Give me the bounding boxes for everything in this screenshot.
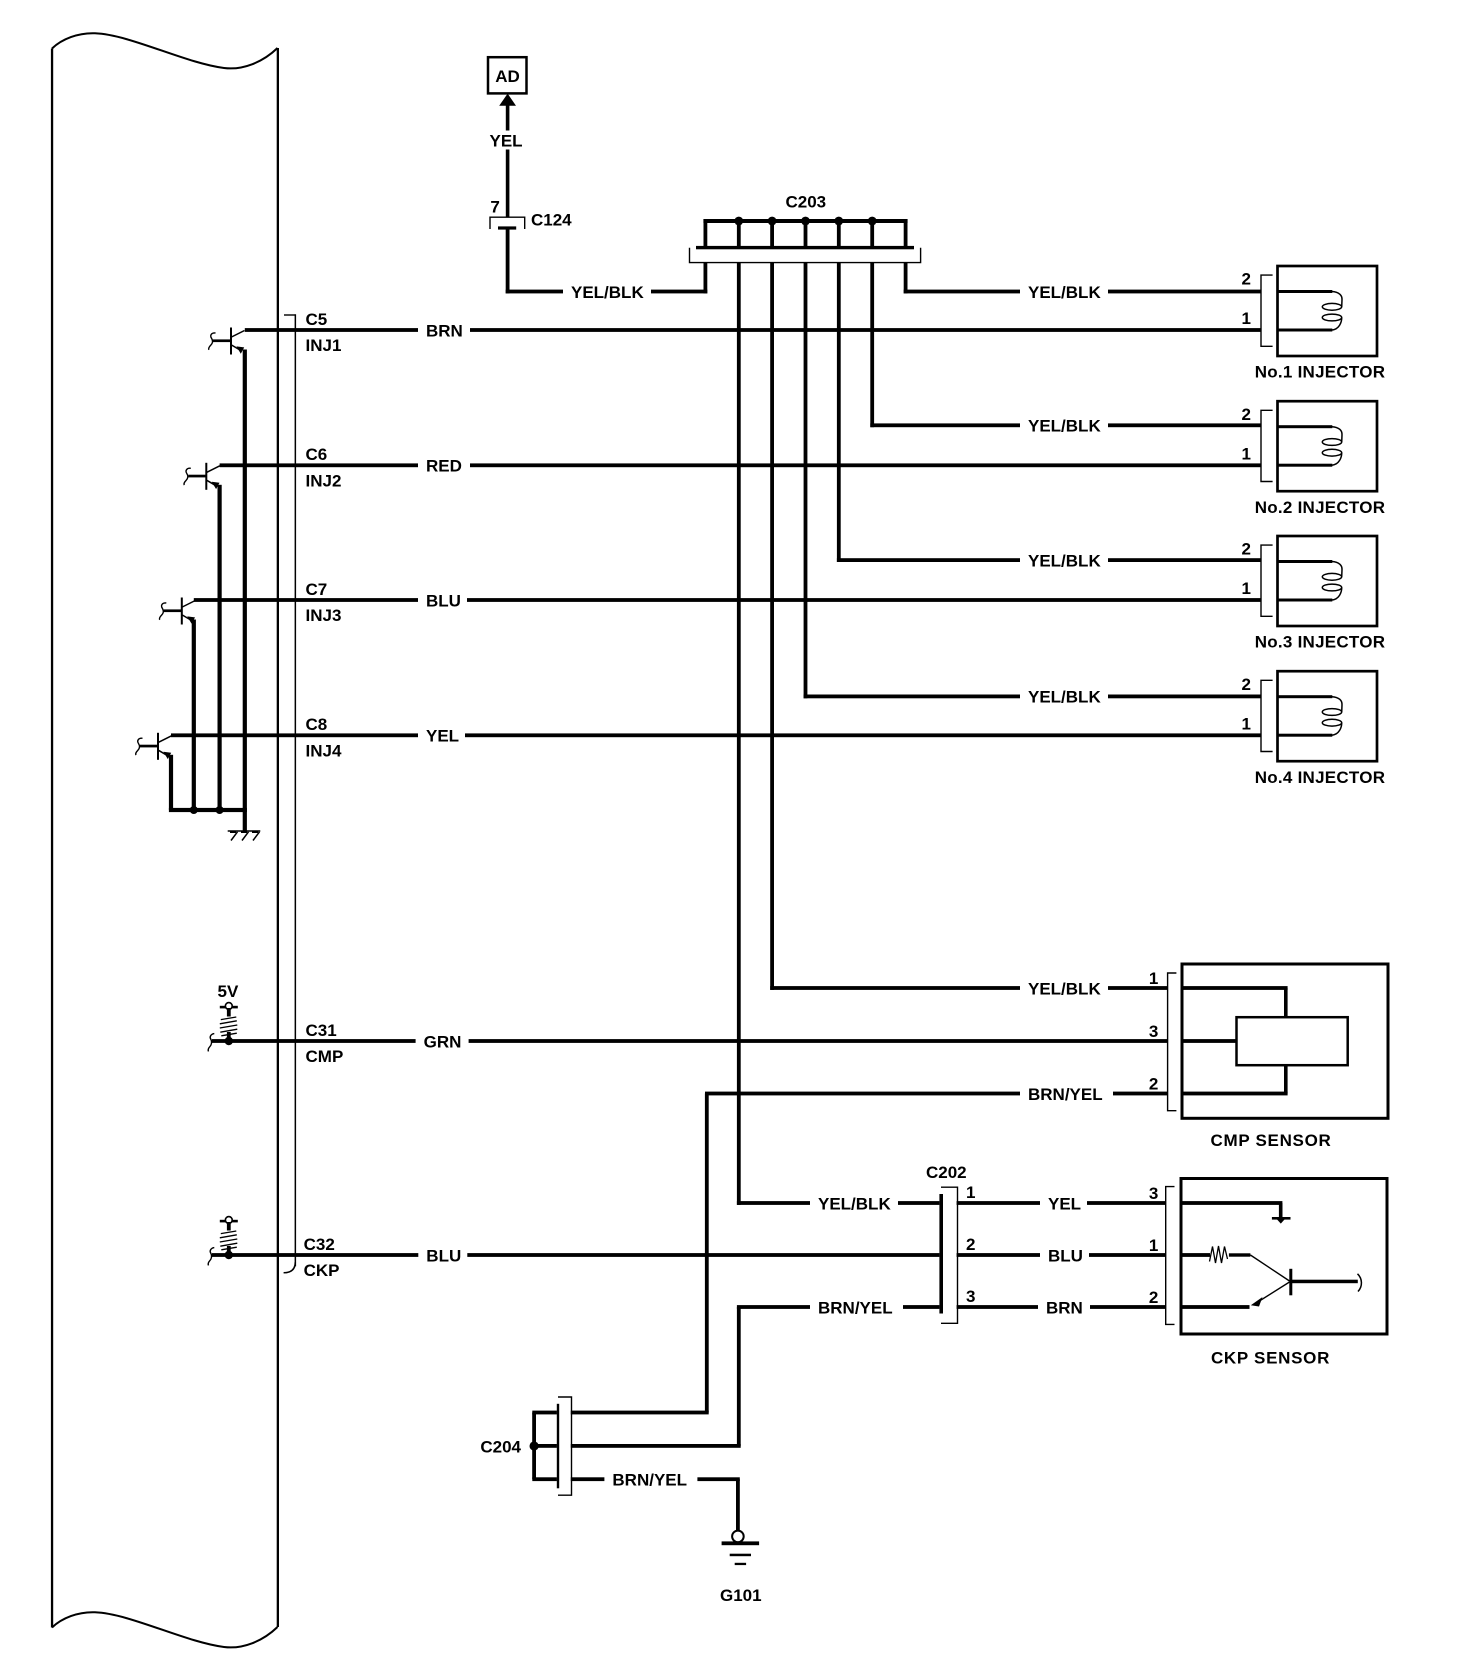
wire: C203 to CMP sensor pin 1 (YEL/BLK)	[770, 263, 774, 990]
wire YEL: C124 pin 7 up to AD	[506, 105, 510, 217]
wire RED: ECM pin C6 to injector	[220, 463, 1262, 467]
wire: C203 to No.4 injector pin 2 (YEL/BLK)	[804, 263, 808, 699]
transistor Q4 (INJ4 driver)	[136, 733, 172, 760]
svg-text:BLU: BLU	[1048, 1246, 1083, 1265]
svg-text:No.1 INJECTOR: No.1 INJECTOR	[1255, 363, 1385, 382]
resistor: pull-up at ECM pin C32	[220, 1220, 238, 1223]
svg-text:C5: C5	[306, 310, 328, 329]
svg-text:1: 1	[1242, 309, 1251, 328]
wire: ground rail stem	[243, 810, 247, 831]
CKP sensor	[1149, 1179, 1387, 1368]
wire BRN/YEL: C204 bottom pin to G101	[571, 1477, 740, 1481]
wire: C203 to No.3 injector pin 2 (YEL/BLK)	[837, 263, 841, 562]
svg-text:5V: 5V	[218, 982, 239, 1001]
wire BRN/YEL: C202 pin 3 left side to C204	[737, 1305, 940, 1309]
transistor Q3 (INJ3 driver)	[159, 598, 195, 625]
CKP internal ground	[1279, 1203, 1283, 1218]
label YEL wire color	[418, 724, 465, 746]
svg-text:CMP: CMP	[306, 1047, 344, 1066]
junction on ground rail (Q3)	[190, 806, 198, 814]
svg-text:7: 7	[490, 197, 499, 216]
junction on C203 bus	[868, 217, 877, 226]
svg-text:CMP SENSOR: CMP SENSOR	[1211, 1131, 1332, 1150]
svg-text:2: 2	[1242, 540, 1251, 559]
svg-text:1: 1	[1149, 969, 1158, 988]
svg-text:C202: C202	[926, 1163, 967, 1182]
svg-text:BLU: BLU	[426, 591, 461, 610]
svg-text:C6: C6	[306, 445, 328, 464]
svg-text:C204: C204	[480, 1437, 521, 1456]
junction on C203 bus	[734, 217, 743, 226]
svg-text:No.4 INJECTOR: No.4 INJECTOR	[1255, 768, 1385, 787]
label BLU wire color	[418, 1244, 467, 1266]
junction on C203 bus	[768, 217, 777, 226]
svg-text:3: 3	[1149, 1184, 1158, 1203]
label RED wire color	[418, 454, 470, 476]
wire: CMP pin 1 internal	[1284, 988, 1288, 1017]
wire YEL: ECM pin C8 to injector	[171, 733, 1261, 737]
svg-text:CKP: CKP	[304, 1261, 340, 1280]
svg-text:C8: C8	[306, 715, 328, 734]
wire GRN: ECM pin C31 to CMP sensor	[212, 1039, 1168, 1043]
svg-text:CKP SENSOR: CKP SENSOR	[1211, 1348, 1330, 1367]
arrow up into AD	[499, 94, 516, 106]
label YEL wire color	[489, 131, 523, 150]
junction on C203 bus	[834, 217, 843, 226]
svg-text:1: 1	[1242, 579, 1251, 598]
svg-text:2: 2	[1149, 1288, 1158, 1307]
svg-text:C7: C7	[306, 580, 328, 599]
svg-text:BLU: BLU	[426, 1246, 461, 1265]
svg-text:YEL/BLK: YEL/BLK	[1028, 283, 1101, 302]
wire BRN: ECM pin C5 to injector	[245, 328, 1262, 332]
svg-text:YEL/BLK: YEL/BLK	[571, 283, 644, 302]
ground G101	[720, 1531, 762, 1605]
svg-text:RED: RED	[426, 457, 462, 476]
svg-text:GRN: GRN	[424, 1032, 462, 1051]
wire: C203 to No.2 injector pin 2 (YEL/BLK)	[870, 263, 874, 428]
resistor: 5V pull-up at ECM pin C31	[220, 1006, 238, 1009]
junction on C203 bus	[801, 217, 810, 226]
wire: C203 right pin to No.1 injector pin 2	[904, 263, 908, 294]
svg-text:BRN/YEL: BRN/YEL	[818, 1298, 893, 1317]
svg-text:YEL/BLK: YEL/BLK	[1028, 979, 1101, 998]
wire: emitter of Q4 (INJ4 driver) to ground rail	[169, 755, 173, 810]
svg-text:INJ4: INJ4	[306, 742, 342, 761]
svg-text:YEL: YEL	[1048, 1194, 1081, 1213]
svg-text:YEL: YEL	[490, 132, 523, 151]
svg-text:YEL/BLK: YEL/BLK	[1028, 551, 1101, 570]
svg-text:INJ2: INJ2	[306, 472, 342, 491]
node AD (destination flag)	[488, 57, 527, 93]
svg-text:1: 1	[966, 1183, 975, 1202]
wire: C203 left pin down to YEL/BLK run	[704, 263, 708, 294]
CKP internal pickup coil	[1210, 1246, 1362, 1307]
wire BRN: C202 pin 3 to CKP pin 2	[957, 1305, 1166, 1309]
junction on ground rail (Q2)	[216, 806, 224, 814]
label GRN wire color	[416, 1030, 469, 1052]
svg-text:2: 2	[1242, 405, 1251, 424]
wire: emitter of Q1 (INJ1 driver) to ground rail	[243, 350, 247, 811]
svg-text:2: 2	[1242, 270, 1251, 289]
transistor Q2 (INJ2 driver)	[184, 463, 220, 490]
wire BLU: C202 pin 2 to CKP pin 1	[957, 1253, 1166, 1257]
svg-text:C203: C203	[786, 192, 827, 211]
svg-text:No.2 INJECTOR: No.2 INJECTOR	[1255, 498, 1385, 517]
CMP sensor	[1149, 964, 1388, 1150]
wire YEL: C202 pin 1 to CKP pin 3	[957, 1201, 1166, 1205]
svg-text:BRN/YEL: BRN/YEL	[612, 1471, 687, 1490]
label YEL/BLK wire color	[563, 281, 651, 303]
svg-text:BRN: BRN	[1046, 1298, 1083, 1317]
svg-text:3: 3	[1149, 1022, 1158, 1041]
No.2 injector	[1242, 401, 1386, 517]
svg-text:2: 2	[1242, 675, 1251, 694]
junction at C204	[530, 1441, 539, 1450]
svg-text:INJ3: INJ3	[306, 606, 342, 625]
wire: common emitter ground rail	[169, 808, 247, 812]
svg-text:2: 2	[966, 1235, 975, 1254]
svg-text:YEL: YEL	[426, 727, 459, 746]
svg-text:C31: C31	[306, 1021, 337, 1040]
svg-text:1: 1	[1242, 714, 1251, 733]
svg-text:G101: G101	[720, 1586, 762, 1605]
ground (chassis) symbol for injector drivers	[228, 831, 261, 841]
connector C124	[490, 211, 572, 230]
label BRN wire color	[418, 319, 470, 341]
wire: C204 left jumper bus	[532, 1413, 536, 1480]
wire YEL/BLK: C124 to C203	[506, 229, 510, 294]
svg-text:2: 2	[1149, 1074, 1158, 1093]
No.3 injector	[1242, 536, 1386, 652]
wire: C204 top pin to CMP BRN/YEL drop	[571, 1411, 709, 1415]
transistor Q1 (INJ1 driver)	[209, 328, 245, 355]
svg-text:C124: C124	[531, 211, 572, 230]
svg-text:YEL/BLK: YEL/BLK	[1028, 417, 1101, 436]
svg-text:BRN/YEL: BRN/YEL	[1028, 1085, 1103, 1104]
connector C202	[926, 1163, 975, 1323]
wire: emitter of Q3 (INJ3 driver) to ground rail	[192, 620, 196, 811]
wire BLU: ECM pin C32 to connector C202	[212, 1253, 939, 1257]
wire BLU: ECM pin C7 to injector	[194, 598, 1262, 602]
connector C203 (fuel injector resistor/junction connector)	[690, 192, 921, 262]
wire: emitter of Q2 (INJ2 driver) to ground rail	[218, 485, 222, 810]
label BLU wire color	[418, 589, 467, 611]
connector C204	[480, 1397, 571, 1495]
svg-text:INJ1: INJ1	[306, 336, 342, 355]
No.1 injector	[1242, 266, 1386, 382]
svg-text:YEL/BLK: YEL/BLK	[1028, 688, 1101, 707]
wire: C203 to C202 pin 1 (YEL/BLK)	[737, 263, 741, 1205]
svg-text:No.3 INJECTOR: No.3 INJECTOR	[1255, 633, 1385, 652]
ECM connector pin column	[284, 314, 296, 315]
svg-text:YEL/BLK: YEL/BLK	[818, 1194, 891, 1213]
svg-text:BRN: BRN	[426, 321, 463, 340]
ECM/PCM module body (torn-edge outline)	[52, 33, 278, 1647]
No.4 injector	[1242, 671, 1386, 787]
svg-text:1: 1	[1149, 1236, 1158, 1255]
wire BRN/YEL: CMP pin 2 to C204	[705, 1092, 1168, 1096]
svg-text:1: 1	[1242, 444, 1251, 463]
svg-text:C32: C32	[304, 1235, 335, 1254]
svg-text:AD: AD	[495, 67, 520, 86]
CMP sensor element box	[1237, 1017, 1348, 1065]
wire: C204 middle pin to C202 BRN/YEL drop	[571, 1444, 741, 1448]
svg-text:3: 3	[966, 1287, 975, 1306]
